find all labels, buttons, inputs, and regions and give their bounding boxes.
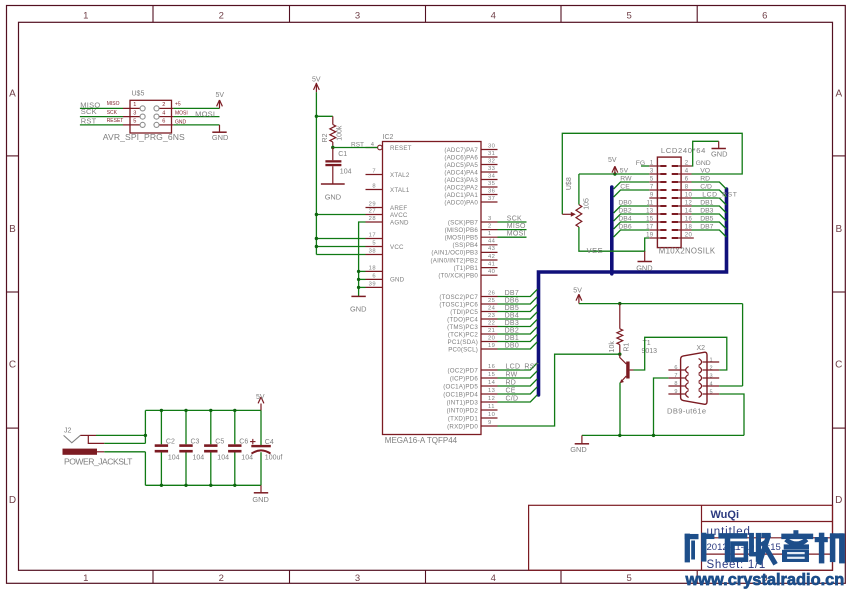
IC2 pin 15 stub [481, 377, 498, 379]
IC2 pin 3 stub [481, 221, 498, 223]
svg-text:GND: GND [390, 277, 405, 284]
svg-text:AVR_SPI_PRG_6NS: AVR_SPI_PRG_6NS [103, 132, 185, 142]
wire RXD from IC2 pin 9 to T1 collector [498, 354, 620, 426]
resistor R2 body [330, 125, 336, 143]
IC2 pin 28 stub [366, 221, 383, 223]
svg-text:26: 26 [488, 290, 495, 296]
supply 5V at U$5 [219, 100, 221, 108]
svg-text:(ADC4)PA4: (ADC4)PA4 [444, 169, 478, 176]
svg-text:U$5: U$5 [132, 91, 145, 98]
svg-text:7: 7 [372, 169, 376, 175]
frame left tick 2 [7, 291, 19, 293]
svg-text:7: 7 [650, 185, 654, 191]
LCD pin 15 contact [660, 221, 666, 223]
transistor T1 collector lead [620, 354, 627, 364]
capacitor C5 plates [204, 444, 217, 452]
LCD pin 3 contact [660, 173, 666, 175]
svg-text:RST: RST [351, 141, 364, 148]
wire X2 pin 4 to 5V [719, 385, 742, 387]
svg-text:(INT1)PD3: (INT1)PD3 [447, 399, 479, 406]
wire T1 base stub [630, 369, 634, 371]
LCD pin 12 contact [672, 205, 678, 207]
X2 pin 3 contact arc [699, 375, 702, 382]
capacitor C2 bottom lead [160, 453, 162, 486]
svg-text:LCD_RST: LCD_RST [702, 191, 737, 198]
wire T1 base to X2 pin 2 [634, 337, 727, 370]
IC2 pin 44 stub [481, 244, 498, 246]
IC2 pin 1 stub [481, 236, 498, 238]
svg-text:10: 10 [488, 412, 495, 418]
LCD pin 1 contact [660, 165, 666, 167]
svg-text:5: 5 [710, 389, 713, 395]
wire CE to LCD pin 7 [614, 190, 650, 197]
svg-text:DB3: DB3 [700, 208, 713, 215]
LCD pin 12 stub [678, 205, 692, 207]
svg-text:25: 25 [488, 298, 495, 304]
LCD pin 8 stub [678, 189, 692, 191]
IC2 pin 41 stub [481, 267, 498, 269]
capacitor C3 bottom lead [185, 453, 187, 486]
LCD pin 10 stub [678, 197, 692, 199]
LCD pin 16 stub [678, 221, 692, 223]
svg-text:(TMS)PC3: (TMS)PC3 [447, 324, 478, 331]
U$5 pin 6 circle [154, 122, 159, 127]
junction emitter GND [618, 434, 621, 437]
svg-text:4: 4 [685, 169, 689, 175]
svg-text:SCK: SCK [81, 107, 97, 116]
capacitor C6 top lead [234, 410, 236, 444]
svg-text:XTAL1: XTAL1 [390, 187, 410, 194]
wire VEE from U$8 bottom [579, 227, 649, 251]
svg-text:B: B [835, 224, 842, 235]
wire U$5 pin 4 MOSI [173, 116, 219, 118]
svg-text:DB0: DB0 [505, 343, 519, 350]
LCD pin 19 contact [660, 237, 666, 239]
svg-text:7: 7 [674, 373, 677, 379]
svg-text:RD: RD [506, 380, 517, 387]
svg-text:4: 4 [162, 110, 165, 116]
junction C5 bottom [209, 484, 212, 487]
IC2 pin 38 stub [366, 254, 383, 256]
wire +5V rail drop [144, 410, 146, 443]
wire RST to IC2 RESET pin [333, 147, 378, 149]
LCD pin 19 stub [649, 237, 660, 239]
svg-text:(INT0)PD2: (INT0)PD2 [447, 407, 479, 414]
ground symbol at C1 [321, 183, 345, 185]
svg-text:34: 34 [488, 173, 496, 179]
junction VCC 5 [315, 245, 318, 248]
wire DB2 to LCD pin 13 [614, 214, 650, 221]
resistor R1 body [617, 329, 623, 345]
svg-text:C/D: C/D [506, 396, 519, 403]
X2 pin 9 contact arc [686, 391, 689, 398]
junction 5V to R2 branch [315, 115, 318, 118]
svg-text:AREF: AREF [390, 205, 407, 212]
svg-text:GND: GND [636, 264, 652, 273]
svg-text:10k: 10k [609, 341, 616, 353]
wire sleeve drop to GND rail [144, 452, 146, 486]
svg-text:C3: C3 [191, 439, 200, 446]
svg-text:14: 14 [488, 380, 496, 386]
IC2 pin 39 stub [366, 286, 383, 288]
svg-text:12: 12 [488, 396, 495, 402]
svg-text:2: 2 [219, 11, 224, 22]
IC2 pin 13 stub [481, 393, 498, 395]
svg-text:104: 104 [168, 454, 180, 461]
svg-text:3: 3 [710, 373, 713, 379]
X2 pin 4 contact arc [699, 383, 702, 390]
svg-text:105: 105 [584, 198, 591, 210]
X2 pin 2 stub [703, 369, 720, 371]
IC2 pin 20 stub [481, 341, 498, 343]
transistor T1 base bar [626, 362, 629, 379]
LCD pin 13 contact [660, 213, 666, 215]
svg-text:9: 9 [650, 193, 654, 199]
frame right tick 1 [833, 155, 846, 157]
wire VCC pin 38 [316, 254, 365, 256]
svg-text:18: 18 [369, 265, 376, 271]
svg-text:MOSI: MOSI [175, 110, 188, 116]
svg-text:A: A [835, 88, 842, 99]
IC2 pin 8 stub [366, 189, 383, 191]
svg-text:VCC: VCC [390, 244, 404, 251]
LCD pin 20 stub [678, 237, 694, 239]
svg-text:5: 5 [650, 177, 654, 183]
svg-text:33: 33 [488, 166, 495, 172]
wire VO to LCD pin 4 [562, 133, 742, 214]
resistor R1 top lead [619, 304, 621, 329]
supply 5V at power rail [260, 404, 262, 411]
frame bottom tick 1 [152, 570, 154, 583]
svg-text:(TCK)PC2: (TCK)PC2 [448, 331, 478, 338]
svg-text:10: 10 [685, 193, 693, 199]
svg-text:RESET: RESET [107, 118, 124, 124]
U$5 pin 3 circle [140, 114, 145, 119]
potentiometer U$8 wiper arrow [562, 212, 576, 217]
wire 5V to LCD pin 3 [579, 173, 649, 175]
svg-text:43: 43 [488, 246, 495, 252]
svg-text:2: 2 [488, 223, 492, 229]
svg-text:44: 44 [488, 239, 496, 245]
capacitor C4 top lead [260, 410, 262, 446]
junction C3 bottom [184, 484, 187, 487]
wire GND bottom rail [145, 484, 261, 486]
title block row line 2 [702, 537, 833, 539]
svg-text:(ADC0)PA0: (ADC0)PA0 [444, 199, 478, 206]
junction C5 top [209, 409, 212, 412]
wire 5V rail to DB9 [579, 303, 743, 305]
LCD pin 7 stub [649, 189, 660, 191]
svg-text:4: 4 [710, 381, 713, 387]
potentiometer U$8 body [576, 205, 582, 227]
ground symbol at power rail [260, 485, 262, 493]
capacitor C3 plates [179, 444, 192, 452]
svg-text:C6: C6 [239, 439, 248, 446]
svg-text:104: 104 [241, 454, 253, 461]
svg-text:LCD240*64: LCD240*64 [661, 146, 706, 155]
svg-text:C5: C5 [215, 439, 224, 446]
capacitor C3 top lead [185, 410, 187, 444]
svg-text:12: 12 [685, 201, 693, 207]
frame bottom tick 2 [289, 570, 291, 583]
svg-text:MISO: MISO [107, 101, 120, 107]
X2 pin 6 contact arc [686, 367, 689, 374]
LCD pin 1 stub [649, 165, 660, 167]
wire AGND down [359, 222, 366, 296]
junction T1 collector node [618, 353, 621, 356]
capacitor C5 bottom lead [210, 453, 212, 486]
LCD pin 14 contact [672, 213, 678, 215]
LCD pin 6 contact [672, 181, 678, 183]
svg-text:100uf: 100uf [265, 454, 283, 461]
svg-text:5: 5 [133, 119, 136, 125]
U$5 pin 1 stub [123, 107, 140, 109]
bus DB0-DB7 control main [539, 189, 727, 395]
svg-text:1: 1 [650, 161, 654, 167]
title block row line 1 [702, 521, 833, 523]
capacitor C6 bottom lead [234, 453, 236, 486]
wire GND pin 18 [359, 270, 366, 272]
wire VCC pin 17 [316, 238, 365, 240]
ground symbol at VEE node [644, 251, 646, 261]
IC2 pin 22 stub [481, 326, 498, 328]
capacitor C4 plus sign [250, 439, 255, 444]
svg-text:C: C [835, 360, 842, 371]
wire DB7 from IC2 pin 26 [498, 289, 538, 296]
LCD pin 14 stub [678, 213, 692, 215]
wire DB1 from IC2 pin 20 [498, 334, 538, 341]
wire SCK to U$5 pin 3 [80, 116, 123, 118]
X2 pin 7 stub [668, 377, 685, 379]
junction R1 top [618, 302, 621, 305]
resistor R2 bottom lead [332, 142, 334, 148]
svg-text:R2: R2 [322, 133, 329, 142]
svg-text:(T0/XCK)PB0: (T0/XCK)PB0 [438, 273, 478, 280]
svg-text:37: 37 [488, 196, 495, 202]
svg-text:13: 13 [488, 388, 495, 394]
svg-text:22: 22 [488, 320, 495, 326]
wire GND pin 6 [359, 278, 366, 280]
LCD pin 13 stub [649, 213, 660, 215]
svg-text:(ADC6)PA6: (ADC6)PA6 [444, 154, 478, 161]
svg-text:31: 31 [488, 151, 495, 157]
svg-text:6: 6 [685, 177, 689, 183]
LCD pin 18 contact [672, 229, 678, 231]
svg-text:C/D: C/D [700, 183, 712, 190]
svg-text:14: 14 [685, 209, 693, 215]
title block divider [701, 505, 703, 570]
svg-text:40: 40 [488, 269, 495, 275]
wire RW to LCD pin 5 [614, 182, 650, 189]
X2 pin 1 contact arc [699, 359, 702, 366]
supply 5V at IC2 [315, 83, 317, 92]
svg-text:24: 24 [488, 305, 496, 311]
svg-text:(T1)PB1: (T1)PB1 [454, 265, 479, 272]
svg-text:5: 5 [626, 11, 631, 22]
svg-text:(TDO)PC4: (TDO)PC4 [447, 316, 478, 323]
svg-text:6: 6 [674, 365, 677, 371]
svg-text:42: 42 [488, 254, 495, 260]
wire CE from IC2 pin 13 [498, 387, 538, 394]
wire DB7 to LCD pin 18 [692, 230, 727, 237]
IC2 pin 18 stub [366, 270, 383, 272]
LCD pin 16 contact [672, 221, 678, 223]
svg-text:41: 41 [488, 261, 495, 267]
svg-text:104: 104 [193, 454, 205, 461]
svg-text:GND: GND [696, 160, 711, 167]
svg-text:(MISO)PB6: (MISO)PB6 [445, 227, 479, 234]
wire jack switch to +5V rail [104, 442, 145, 444]
svg-text:VO: VO [700, 167, 710, 174]
svg-text:VEE: VEE [587, 246, 604, 255]
svg-text:RD: RD [700, 175, 710, 182]
X2 pin 8 stub [668, 385, 685, 387]
bus branch LCD left [610, 187, 614, 274]
potentiometer U$8 top lead [578, 174, 580, 205]
svg-text:9013: 9013 [642, 348, 658, 355]
wire AVCC to 5V rail [316, 214, 365, 216]
power jack J2 tip lead [80, 434, 96, 436]
svg-text:DB1: DB1 [505, 335, 519, 342]
svg-text:16: 16 [685, 217, 693, 223]
svg-text:FG: FG [636, 160, 645, 167]
wire +5V top rail [145, 409, 261, 411]
LCD pin 20 contact [672, 237, 678, 239]
frame right tick 2 [833, 291, 846, 293]
svg-text:R1: R1 [623, 343, 630, 352]
svg-text:MISO: MISO [507, 223, 526, 230]
svg-text:2: 2 [162, 102, 165, 108]
svg-text:30: 30 [488, 143, 495, 149]
U$5 pin 1 circle [140, 106, 145, 111]
wire SCK from IC2 pin 3 [498, 221, 527, 223]
IC2 pin 16 stub [481, 369, 498, 371]
svg-text:3: 3 [650, 169, 654, 175]
svg-text:18: 18 [685, 225, 693, 231]
capacitor C1 top lead [332, 148, 334, 161]
svg-text:www.crystalradio.cn: www.crystalradio.cn [685, 571, 845, 589]
svg-text:+5: +5 [175, 102, 181, 108]
wire X2 pin 7 to GND rail [654, 378, 669, 435]
frame top tick 1 [152, 6, 154, 23]
svg-text:MOSI: MOSI [507, 231, 526, 238]
svg-text:CE: CE [620, 183, 630, 190]
svg-text:PC1(SDA): PC1(SDA) [448, 339, 478, 346]
svg-text:LCD_RST: LCD_RST [506, 364, 540, 371]
wire DB3 from IC2 pin 22 [498, 319, 538, 326]
svg-text:1: 1 [488, 231, 492, 237]
svg-text:PC0(SCL): PC0(SCL) [448, 346, 478, 353]
svg-text:MEGA16-A TQFP44: MEGA16-A TQFP44 [385, 436, 458, 445]
svg-text:5V: 5V [312, 77, 321, 84]
junction X2 pin7 GND [652, 434, 655, 437]
connector U$9 M10X2 body [657, 157, 681, 248]
capacitor C1 plates [325, 160, 341, 166]
IC2 pin 19 stub [481, 348, 498, 350]
frame bottom tick 4 [560, 570, 562, 583]
capacitor C1 bottom lead [332, 166, 334, 184]
svg-text:DB3: DB3 [505, 320, 519, 327]
svg-text:DB7: DB7 [505, 290, 519, 297]
X2 pin 5 contact arc [699, 391, 702, 398]
svg-text:XTAL2: XTAL2 [390, 172, 410, 179]
svg-text:(AIN0/INT2)PB2: (AIN0/INT2)PB2 [431, 257, 479, 264]
frame left tick 1 [7, 155, 19, 157]
wire DB0 to LCD pin 11 [614, 206, 650, 213]
IC2 pin 31 stub [481, 156, 498, 158]
wire FG to LCD pin 1 [641, 165, 649, 167]
svg-text:5V: 5V [216, 92, 225, 99]
svg-text:39: 39 [369, 281, 376, 287]
svg-text:3: 3 [488, 216, 492, 222]
svg-text:2: 2 [685, 161, 689, 167]
svg-text:C4: C4 [265, 439, 274, 446]
power jack J2 tip contact [64, 435, 81, 442]
wire 5V branch to R2 [316, 115, 332, 117]
junction C6 top [233, 409, 236, 412]
svg-text:RW: RW [506, 372, 518, 379]
wire VCC pin 5 [316, 246, 365, 248]
junction at jack tip node [144, 434, 147, 437]
svg-text:IC2: IC2 [383, 134, 394, 141]
svg-text:(TXD)PD1: (TXD)PD1 [448, 415, 478, 422]
X2 pin 1 stub [703, 361, 720, 363]
svg-text:(OC1A)PD5: (OC1A)PD5 [443, 383, 478, 390]
svg-text:4: 4 [491, 573, 496, 584]
U$5 pin 4 circle [154, 114, 159, 119]
LCD pin 10 contact [672, 197, 678, 199]
wire RD from IC2 pin 14 [498, 379, 538, 386]
U$5 pin 3 stub [123, 116, 140, 118]
svg-text:(ICP)PD6: (ICP)PD6 [450, 375, 478, 382]
svg-text:6: 6 [162, 119, 165, 125]
wire X2 pin 5 to GND rail [719, 394, 744, 435]
wire DB2 from IC2 pin 21 [498, 327, 538, 334]
junction GND 18 [357, 270, 360, 273]
wire LCD_RST to LCD pin 10 [692, 198, 727, 205]
junction 5V at LCD [613, 172, 616, 175]
junction GND 6 [357, 278, 360, 281]
IC2 pin 27 stub [366, 214, 383, 216]
svg-text:19: 19 [488, 343, 495, 349]
svg-text:104: 104 [217, 454, 229, 461]
svg-text:11: 11 [488, 404, 495, 410]
capacitor C5 top lead [210, 410, 212, 444]
IC2 pin 23 stub [481, 318, 498, 320]
svg-text:5V: 5V [608, 157, 617, 164]
IC IC2 MEGA16-A body [383, 142, 482, 435]
LCD pin 11 contact [660, 205, 666, 207]
svg-text:DB9-ut61e: DB9-ut61e [667, 406, 706, 415]
IC2 pin 42 stub [481, 259, 498, 261]
junction VCC 17 [315, 237, 318, 240]
svg-text:(OC1B)PD4: (OC1B)PD4 [443, 391, 478, 398]
LCD pin 4 contact [672, 173, 678, 175]
svg-text:GND: GND [350, 305, 366, 314]
IC2 pin 17 stub [366, 238, 383, 240]
wire DB5 from IC2 pin 24 [498, 304, 538, 311]
wire U$5 pin 6 to GND [173, 124, 219, 126]
wire C/D from IC2 pin 12 [498, 395, 538, 402]
U$5 pin 6 stub [159, 124, 173, 126]
power jack J2 sleeve lead [97, 451, 104, 453]
wire RST to U$5 pin 5 [80, 124, 123, 126]
frame right tick 3 [833, 427, 846, 429]
svg-text:17: 17 [369, 233, 376, 239]
LCD pin 15 stub [649, 221, 660, 223]
junction C6 bottom [233, 484, 236, 487]
svg-text:6: 6 [762, 11, 767, 22]
